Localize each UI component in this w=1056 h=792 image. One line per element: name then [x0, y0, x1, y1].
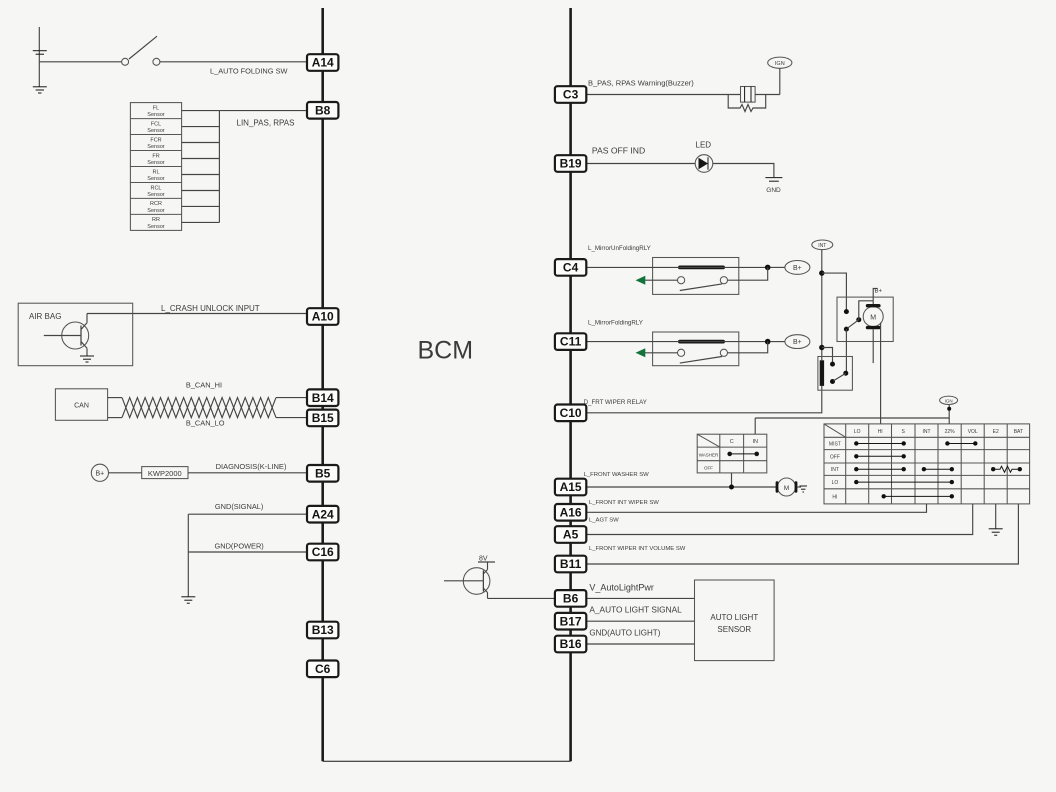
svg-text:GND(POWER): GND(POWER) — [215, 542, 264, 551]
wire table E col to ground — [995, 504, 997, 529]
svg-text:B+: B+ — [875, 289, 883, 295]
node junction dot — [765, 339, 771, 345]
svg-text:INT: INT — [831, 467, 839, 473]
park switch contacts — [844, 301, 873, 332]
svg-text:C6: C6 — [315, 662, 331, 676]
svg-text:OFF: OFF — [704, 466, 713, 471]
svg-text:DIAGNOSIS(K-LINE): DIAGNOSIS(K-LINE) — [216, 462, 287, 471]
svg-text:M: M — [784, 485, 789, 492]
svg-text:LO: LO — [832, 480, 839, 486]
node IGN oval (wiper) — [940, 396, 958, 411]
svg-text:Sensor: Sensor — [147, 176, 165, 182]
svg-text:GND: GND — [766, 187, 781, 194]
svg-text:B_PAS, RPAS Warning(Buzzer): B_PAS, RPAS Warning(Buzzer) — [588, 79, 694, 88]
ground below battery — [33, 62, 47, 93]
svg-text:C: C — [730, 439, 734, 445]
svg-text:Sensor: Sensor — [147, 160, 165, 166]
svg-text:WASHER: WASHER — [699, 453, 719, 458]
svg-text:FL: FL — [153, 105, 159, 111]
washer contact dots — [727, 452, 759, 457]
svg-text:BAT: BAT — [1014, 429, 1023, 435]
wire table INT col to A16 — [586, 504, 926, 512]
svg-text:B_CAN_LO: B_CAN_LO — [186, 419, 225, 428]
svg-text:A_AUTO LIGHT SIGNAL: A_AUTO LIGHT SIGNAL — [589, 605, 682, 615]
battery/supply symbol top-left — [33, 27, 47, 62]
svg-text:L_MirrorUnFoldingRLY: L_MirrorUnFoldingRLY — [588, 245, 651, 252]
svg-text:RCR: RCR — [150, 201, 162, 207]
connector pin B16 — [555, 636, 586, 653]
CAN unit box — [55, 389, 107, 421]
svg-text:BCM: BCM — [418, 337, 474, 365]
connector pin C6 — [307, 661, 338, 678]
wire A15 to washer motor — [586, 486, 776, 488]
wire branch to park contact — [822, 273, 847, 312]
svg-text:A24: A24 — [312, 507, 334, 521]
ground (signal/power) — [181, 597, 195, 603]
svg-text:RCL: RCL — [150, 185, 161, 191]
connector pin B13 — [307, 622, 338, 639]
svg-text:AUTO LIGHT: AUTO LIGHT — [710, 613, 758, 622]
relay box (L_MirrorFoldingRLY) — [653, 332, 739, 366]
svg-text:MIST: MIST — [829, 442, 841, 448]
svg-text:B16: B16 — [560, 637, 582, 651]
svg-text:HI: HI — [878, 429, 883, 435]
wire GND(SIGNAL) to A24 — [188, 513, 307, 515]
wire table VOL col to A5 — [586, 504, 972, 535]
wiper table contact links — [854, 441, 1022, 498]
svg-text:FCL: FCL — [151, 121, 161, 127]
ground (air bag transistor emitter) — [80, 356, 94, 362]
svg-text:L_FRONT WASHER SW: L_FRONT WASHER SW — [584, 472, 650, 478]
LED D1 (PAS OFF indicator) — [695, 141, 713, 173]
motor M (front wiper) — [863, 304, 883, 329]
wire contact to output arrow — [645, 352, 678, 354]
wire contact to output arrow — [645, 279, 678, 281]
relay contacts (wiper) — [830, 362, 848, 384]
svg-text:INT: INT — [922, 429, 930, 435]
svg-text:22%: 22% — [945, 429, 956, 435]
arrow output (green) — [636, 276, 646, 285]
svg-text:RL: RL — [152, 169, 159, 175]
node junction (coil top) — [819, 345, 824, 350]
svg-text:RR: RR — [152, 217, 160, 223]
wire sensor block to B8 — [219, 110, 307, 112]
wire coil feed — [586, 341, 767, 343]
svg-text:C10: C10 — [560, 406, 582, 420]
svg-text:Sensor: Sensor — [147, 144, 165, 150]
svg-text:B11: B11 — [560, 557, 582, 571]
svg-text:E2: E2 — [993, 429, 999, 435]
svg-text:C4: C4 — [563, 261, 579, 275]
connector pin B5 — [307, 465, 338, 482]
svg-text:A15: A15 — [560, 480, 582, 494]
node junction dot — [765, 265, 771, 271]
ground (washer motor) — [797, 486, 807, 492]
wire junction down to contact — [728, 267, 768, 280]
wire B6 to sensor — [586, 597, 694, 599]
twisted pair B_CAN wires — [122, 398, 276, 418]
svg-text:B13: B13 — [312, 623, 334, 637]
svg-text:A16: A16 — [560, 505, 582, 519]
wire IGN feed line — [755, 405, 949, 418]
transistor Q (8V regulator) — [444, 562, 490, 598]
resistor parallel with buzzer — [728, 95, 766, 112]
motor M (washer) — [776, 478, 798, 496]
svg-text:VOL: VOL — [968, 429, 978, 435]
svg-text:PAS OFF IND: PAS OFF IND — [592, 146, 645, 156]
connector pin A5 — [555, 526, 586, 543]
svg-text:KWP2000: KWP2000 — [148, 469, 182, 478]
wire switch to A14 — [160, 61, 307, 63]
svg-text:INT: INT — [818, 243, 826, 249]
wire B17 to sensor — [586, 620, 694, 622]
svg-text:B_CAN_HI: B_CAN_HI — [186, 381, 222, 390]
svg-text:L_MirrorFoldingRLY: L_MirrorFoldingRLY — [588, 320, 643, 327]
svg-text:IGN: IGN — [945, 398, 953, 403]
connector pin C16 — [307, 544, 338, 561]
svg-text:B+: B+ — [793, 265, 802, 272]
connector pin B19 — [555, 155, 586, 172]
wire ground to switch — [39, 61, 121, 63]
wire CAN_HI lead — [108, 397, 122, 399]
wire motor bottom lead — [872, 329, 874, 363]
wire B16 to sensor — [586, 643, 694, 645]
svg-text:SENSOR: SENSOR — [717, 625, 751, 634]
node B+ oval — [785, 261, 810, 275]
svg-text:L_AGT SW: L_AGT SW — [589, 518, 619, 524]
wire junction to B+ — [771, 266, 785, 268]
node junction (INT/park) — [819, 270, 824, 275]
wire branch to relay contact — [822, 348, 833, 365]
wire junction to B+ — [771, 341, 785, 343]
node INT oval — [812, 240, 833, 250]
wire table BAT col to B11 — [586, 504, 1018, 564]
wire 8V transistor to B6 — [488, 597, 556, 599]
svg-text:Sensor: Sensor — [147, 128, 165, 134]
wire sensor rows to collector — [182, 111, 220, 223]
svg-text:A14: A14 — [312, 56, 334, 70]
wire twisted pair to B14 — [276, 397, 307, 399]
svg-text:LO: LO — [854, 429, 861, 435]
ground GND (LED) — [765, 178, 782, 194]
wire twisted pair to B15 — [276, 417, 307, 419]
svg-text:IGN: IGN — [775, 61, 785, 67]
svg-text:GND(SIGNAL): GND(SIGNAL) — [215, 502, 263, 511]
wire left BCM bus — [321, 8, 324, 761]
node junction (washer) — [729, 485, 734, 490]
svg-text:B17: B17 — [560, 614, 582, 628]
buzzer (PAS warning) — [741, 87, 756, 103]
wire buzzer to IGN — [755, 94, 780, 96]
wire ground drop — [187, 514, 189, 596]
svg-text:B8: B8 — [315, 103, 331, 117]
svg-text:B+: B+ — [96, 471, 105, 478]
node IGN (buzzer supply) — [768, 57, 792, 94]
svg-text:LED: LED — [696, 141, 712, 150]
svg-text:FR: FR — [152, 153, 159, 159]
wire air bag to A10 — [87, 313, 307, 315]
connector pin C4 — [555, 259, 586, 276]
washer switch table — [697, 434, 767, 473]
wire motor top to B+ stub — [873, 289, 877, 305]
svg-text:B6: B6 — [563, 592, 579, 606]
connector pin B14 — [307, 389, 338, 406]
wire C10 to wiper relay coil — [586, 386, 821, 413]
wire CAN_LO lead — [108, 417, 122, 419]
wire junction down to contact — [728, 342, 768, 353]
svg-text:L_FRONT INT WIPER SW: L_FRONT INT WIPER SW — [589, 500, 659, 506]
sensor block (PAS/RPAS sensors) — [130, 103, 181, 231]
relay contacts — [678, 277, 728, 291]
svg-text:L_AUTO FOLDING SW: L_AUTO FOLDING SW — [210, 67, 288, 76]
wire washer IN to IGN line — [754, 418, 756, 434]
transistor Q (air bag) — [44, 314, 89, 356]
svg-text:B14: B14 — [312, 391, 334, 405]
connector pin A16 — [555, 504, 586, 521]
svg-text:A5: A5 — [563, 528, 579, 542]
wire B19 to LED — [586, 163, 695, 165]
node B+ oval — [785, 335, 810, 349]
connector pin B8 — [307, 102, 338, 119]
svg-text:AIR BAG: AIR BAG — [29, 312, 61, 321]
svg-text:D_FRT WIPER RELAY: D_FRT WIPER RELAY — [584, 399, 647, 406]
svg-text:GND(AUTO LIGHT): GND(AUTO LIGHT) — [589, 629, 660, 638]
wire coil feed — [586, 266, 767, 268]
svg-text:B5: B5 — [315, 466, 331, 480]
connector pin B17 — [555, 613, 586, 630]
svg-text:L_FRONT WIPER INT VOLUME SW: L_FRONT WIPER INT VOLUME SW — [589, 546, 686, 552]
svg-text:OFF: OFF — [830, 454, 840, 460]
svg-text:CAN: CAN — [74, 402, 89, 409]
svg-text:Sensor: Sensor — [147, 208, 165, 214]
svg-text:V_AutoLightPwr: V_AutoLightPwr — [589, 583, 654, 593]
wire KWP2000 to B5 — [188, 472, 307, 474]
ground (wiper switch) — [989, 529, 1003, 535]
node B+ (diagnosis supply) — [91, 464, 108, 481]
wire washer C to A15 line — [731, 473, 733, 487]
svg-text:LIN_PAS, RPAS: LIN_PAS, RPAS — [237, 119, 295, 128]
connector pin B15 — [307, 410, 338, 427]
svg-text:IN: IN — [752, 439, 758, 445]
label 8V — [478, 556, 495, 563]
svg-text:L_CRASH UNLOCK INPUT: L_CRASH UNLOCK INPUT — [161, 304, 260, 313]
svg-text:C3: C3 — [563, 88, 579, 102]
KWP2000 box — [142, 467, 188, 479]
AUTO LIGHT SENSOR box — [695, 580, 775, 661]
arrow output (green) — [636, 348, 646, 357]
svg-text:Sensor: Sensor — [147, 192, 165, 198]
wiper motor box — [837, 297, 893, 341]
wire B+ to KWP2000 — [109, 472, 142, 474]
svg-text:M: M — [870, 315, 876, 322]
svg-text:A10: A10 — [312, 310, 334, 324]
svg-text:B+: B+ — [793, 339, 802, 346]
svg-text:B19: B19 — [560, 157, 582, 171]
wire INT down to relay — [821, 250, 823, 361]
svg-text:HI: HI — [832, 494, 837, 500]
wire bottom bus connector — [323, 760, 571, 762]
wiper switch table — [824, 424, 1030, 504]
wiper relay box — [818, 357, 853, 391]
wire motor HI lead to table — [880, 323, 882, 424]
connector pin C10 — [555, 405, 586, 422]
connector pin B11 — [555, 556, 586, 573]
wire LED to ground — [713, 164, 774, 178]
svg-text:C11: C11 — [560, 335, 582, 349]
AIR BAG unit box — [18, 303, 133, 366]
switch auto folding SW — [122, 36, 160, 65]
svg-text:FCR: FCR — [150, 137, 161, 143]
connector pin A14 — [307, 54, 338, 71]
connector pin B6 — [555, 590, 586, 607]
wire IGN stub into table — [948, 418, 950, 424]
svg-text:Sensor: Sensor — [147, 224, 165, 230]
connector pin C3 — [555, 86, 586, 103]
relay contacts — [678, 349, 728, 363]
svg-text:B15: B15 — [312, 411, 334, 425]
relay box (L_MirrorUnFoldingRLY) — [653, 258, 739, 295]
connector pin A10 — [307, 308, 338, 325]
wire park contact down to relay contact — [845, 329, 847, 373]
connector pin A24 — [307, 506, 338, 523]
svg-text:Sensor: Sensor — [147, 112, 165, 118]
wire C3 to buzzer — [586, 94, 740, 96]
svg-text:C16: C16 — [312, 545, 334, 559]
connector pin A15 — [555, 479, 586, 496]
connector pin C11 — [555, 333, 586, 350]
wire GND(POWER) to C16 — [188, 551, 307, 553]
wire right BCM bus — [569, 8, 572, 761]
